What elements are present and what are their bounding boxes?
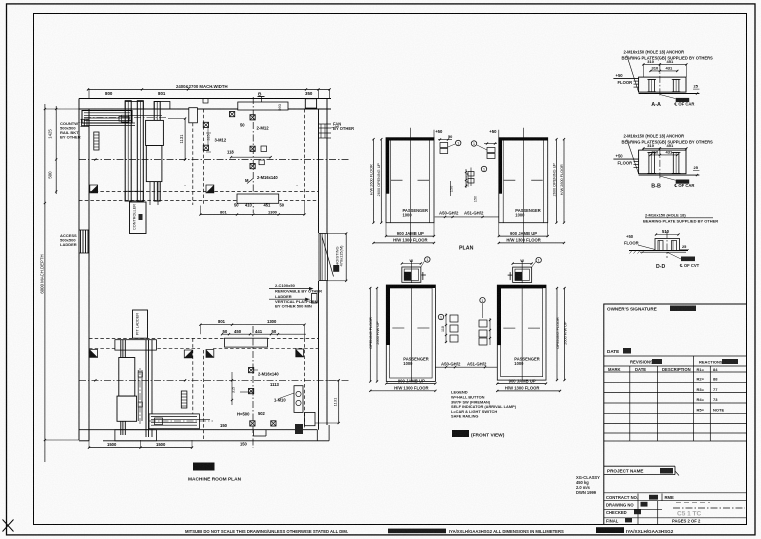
car centre vertical top unit bbox=[252, 97, 254, 213]
traction machine top unit bbox=[146, 120, 164, 145]
slab corner marks bottom unit bbox=[90, 350, 98, 358]
small mark on top wall bbox=[203, 99, 208, 104]
hoistway dashed bottom unit bbox=[89, 337, 318, 339]
project name box bbox=[604, 465, 675, 467]
door BR hall indicator box bbox=[513, 267, 532, 282]
door BR frame bbox=[497, 285, 546, 380]
centerline top unit bbox=[79, 159, 350, 161]
hoistway dashed outline top unit bbox=[192, 123, 194, 205]
car centre vertical bottom unit bbox=[252, 326, 254, 448]
door TL frame bbox=[386, 138, 434, 223]
middle dim stack top row bbox=[468, 172, 474, 177]
slab corner marks top unit bbox=[90, 185, 98, 193]
right vertical dim bottom unit bbox=[338, 380, 340, 423]
weight box right bbox=[305, 412, 315, 425]
beam bands bottom unit bbox=[115, 340, 156, 350]
sill bracket between top doors (right) bbox=[487, 148, 495, 153]
bottom-left bold drawing code bbox=[596, 527, 624, 533]
guide rails bottom unit bbox=[120, 340, 122, 435]
rope element between rails bottom unit bbox=[137, 370, 139, 421]
sill support band below top unit bbox=[237, 194, 279, 203]
guide rails vertical top unit bbox=[125, 101, 131, 201]
plan title bbox=[193, 463, 215, 471]
rail assembly bottom right bbox=[149, 414, 199, 429]
leader small flag bbox=[247, 179, 253, 184]
bottom rows of title block bbox=[604, 492, 747, 494]
door BR bottom dims bbox=[497, 383, 546, 385]
machine room access door right wall bbox=[319, 234, 328, 281]
fold cross mark bottom-left bbox=[3, 520, 14, 532]
controller cabinet bbox=[130, 202, 147, 234]
door TL side dims bbox=[373, 139, 375, 223]
anchor bolts top unit bbox=[203, 122, 208, 127]
pit ladder box bbox=[133, 310, 148, 338]
block below top wall at hoistway divider bbox=[189, 108, 198, 123]
beam pad on top wall bbox=[238, 102, 288, 110]
door BL hall indicator box bbox=[402, 267, 421, 282]
door TR side dims bbox=[563, 139, 565, 223]
title block outline bbox=[604, 304, 747, 525]
top dims of bottom unit bbox=[200, 324, 304, 326]
wall hatch opening left wall bbox=[80, 230, 82, 253]
door BL side dims bbox=[369, 288, 371, 382]
top unit: guide rail assembly horizontal bbox=[82, 111, 132, 124]
wall top rail blocks bbox=[125, 102, 143, 110]
centerline bottom unit bbox=[79, 379, 350, 381]
door BL bottom dims bbox=[386, 383, 435, 385]
column block top wall right bbox=[305, 99, 316, 108]
door BR side dims bbox=[556, 288, 558, 380]
sill bracket between top doors (left) bbox=[440, 143, 448, 148]
hatch box left (rope hitch) bbox=[94, 132, 99, 150]
door TR frame bbox=[499, 138, 548, 223]
fan bracket right wall bbox=[319, 123, 332, 125]
machine bottom unit bbox=[119, 358, 135, 397]
governor bottom unit bbox=[294, 386, 303, 413]
revisions table bbox=[604, 355, 747, 357]
front view label bbox=[452, 430, 469, 437]
bracket stack between bottom doors (left) bbox=[450, 315, 458, 322]
dashed placeholder in drawing-no row bbox=[676, 502, 710, 504]
door BL frame bbox=[386, 285, 435, 382]
anchor bolts bottom unit bbox=[249, 368, 254, 373]
left overall dimension bbox=[44, 104, 46, 462]
bottom dims below plan bbox=[89, 447, 192, 449]
machine vert dim 1131 bbox=[184, 119, 186, 160]
bracket stack between bottom doors (right) bbox=[479, 320, 487, 327]
machine room plan walls bbox=[79, 98, 331, 100]
hatch box bottom unit bbox=[181, 391, 187, 408]
door swing diagonal bbox=[322, 237, 334, 277]
